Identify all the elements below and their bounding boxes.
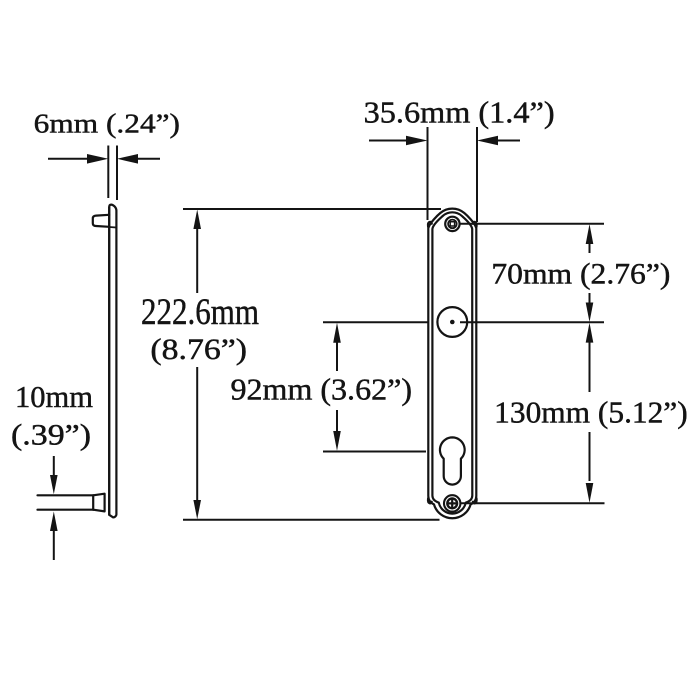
- dim 222.6mm: vertical line upper segment: [196, 228, 198, 293]
- front view plate outer contour: [428, 209, 476, 519]
- ear knot bottom left: [428, 498, 432, 503]
- side view plate edge (left profile strip): [109, 205, 116, 518]
- spindle center reference line left segment: [323, 321, 428, 323]
- dim 35.6mm: right arrow line: [497, 140, 520, 142]
- dim 6mm: left extension line: [107, 146, 109, 199]
- arrowhead 130mm bottom (points down): [586, 483, 594, 503]
- front view plate inner contour: [432, 212, 472, 513]
- dim 35.6mm: right extension line: [476, 127, 478, 222]
- dim 130mm: vertical lower segment: [589, 432, 591, 481]
- dim 130mm: vertical upper segment: [589, 342, 591, 392]
- dim 222.6mm: bottom reference line: [183, 519, 440, 521]
- arrowhead 92mm bottom (points down): [333, 431, 341, 451]
- dim 35.6mm: left extension line: [427, 127, 429, 220]
- svg-text:130mm (5.12”): 130mm (5.12”): [494, 395, 688, 429]
- dim 222.6mm: top reference line: [183, 208, 441, 210]
- arrowhead 35.6mm right (points left): [477, 136, 498, 146]
- svg-text:(8.76”): (8.76”): [150, 334, 247, 366]
- spindle center dot: [450, 320, 455, 325]
- dim 70mm: vertical upper segment: [589, 243, 591, 253]
- dim 10mm: upper arrow shaft: [53, 456, 55, 475]
- arrowhead 70mm top (points up): [586, 224, 594, 244]
- arrowhead 92mm top (points up): [333, 323, 341, 343]
- arrowhead 70mm bottom (points down): [586, 303, 594, 323]
- side view bottom bar (10mm thick piece): [38, 495, 94, 509]
- side view bottom lug (tapered boss): [93, 494, 104, 512]
- ear knot bottom right: [473, 498, 477, 503]
- dim 35.6mm: left arrow line: [369, 140, 407, 142]
- svg-text:222.6mm: 222.6mm: [141, 292, 259, 333]
- top screw: [445, 217, 459, 231]
- arrowhead 10mm upper (points down): [50, 475, 58, 494]
- dim 10mm: lower arrow shaft: [53, 531, 55, 560]
- arrowhead 6mm left (points right): [87, 154, 108, 164]
- arrowhead 222.6mm bottom (points down): [193, 500, 201, 519]
- dim 222.6mm: vertical line lower segment: [196, 367, 198, 501]
- svg-text:70mm (2.76”): 70mm (2.76”): [491, 258, 670, 291]
- dim 70mm: vertical lower segment: [589, 293, 591, 303]
- arrowhead 130mm top (points up): [586, 323, 594, 343]
- arrowhead 6mm right (points left): [117, 154, 138, 164]
- dim 92mm: vertical lower segment: [336, 410, 338, 431]
- spindle center reference line right segment: [460, 321, 604, 323]
- bottom screw: [444, 495, 460, 511]
- dim 6mm: right arrow line: [137, 158, 160, 160]
- dim 6mm: right extension line: [116, 146, 118, 201]
- euro cylinder keyhole: [440, 437, 465, 484]
- svg-text:10mm: 10mm: [15, 380, 93, 414]
- arrowhead 222.6mm top (points up): [193, 210, 201, 230]
- svg-text:6mm (.24”): 6mm (.24”): [34, 109, 180, 140]
- arrowhead 35.6mm left (points right): [406, 136, 428, 146]
- arrowhead 10mm lower (points up): [50, 512, 58, 532]
- ear knot top right: [473, 222, 477, 227]
- svg-text:92mm (3.62”): 92mm (3.62”): [231, 372, 413, 407]
- dim 92mm: vertical upper segment: [336, 343, 338, 372]
- svg-text:(.39”): (.39”): [11, 420, 91, 452]
- svg-text:35.6mm (1.4”): 35.6mm (1.4”): [364, 95, 555, 129]
- side view top mounting lug: [93, 215, 109, 227]
- spindle hole circle: [437, 307, 467, 337]
- keyhole center reference line left segment: [323, 451, 426, 453]
- dim 6mm: left arrow line: [48, 158, 88, 160]
- dim 70mm: top reference line at screw center: [460, 223, 604, 225]
- bottom screw reference line right segment: [461, 502, 605, 504]
- ear knot top left: [428, 222, 432, 227]
